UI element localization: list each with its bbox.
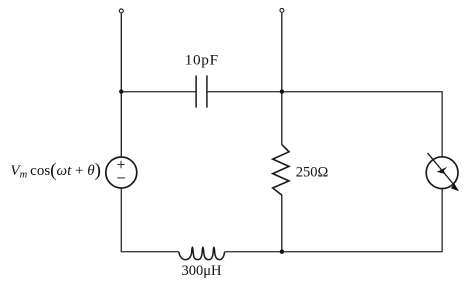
svg-text:250Ω: 250Ω [296,165,329,181]
svg-text:10pF: 10pF [185,52,219,69]
svg-text:Vm cos(ωt + θ): Vm cos(ωt + θ) [10,160,101,181]
svg-text:300μH: 300μH [182,263,223,279]
